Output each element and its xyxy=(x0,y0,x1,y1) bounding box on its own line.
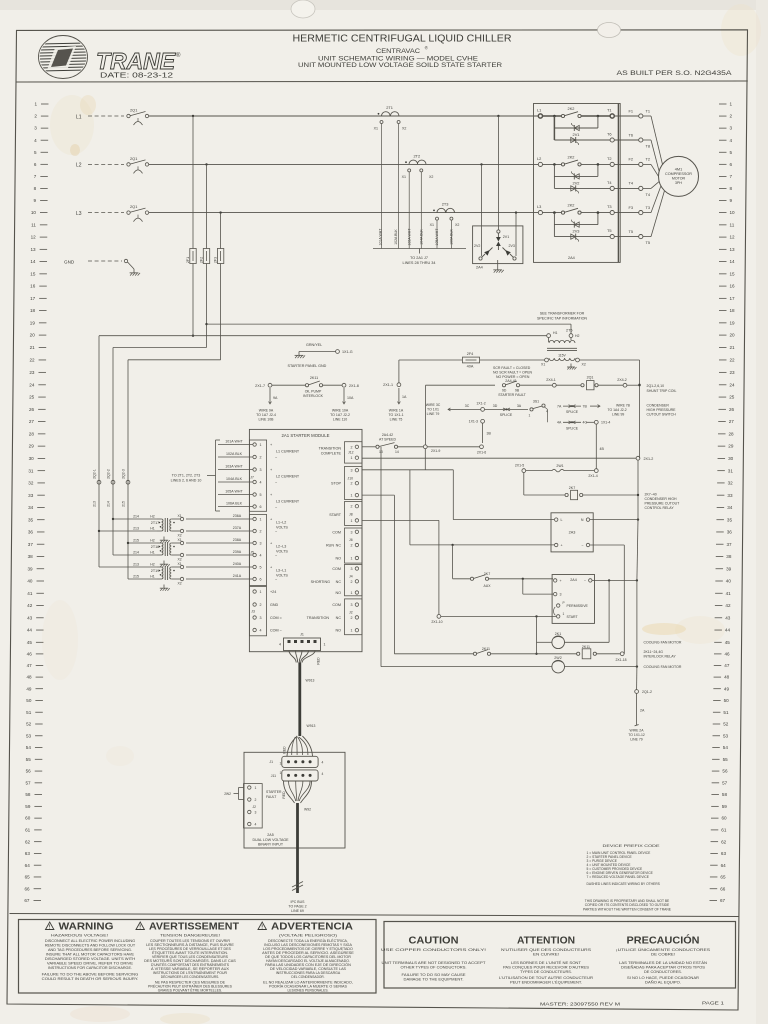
svg-text:4: 4 xyxy=(260,629,262,633)
wire to 2Q1-2 xyxy=(636,667,638,690)
svg-text:SEE TRANSFORMER FOR: SEE TRANSFORMER FOR xyxy=(540,312,585,316)
svg-text:47: 47 xyxy=(27,663,33,668)
svg-text:54: 54 xyxy=(723,745,729,750)
svg-text:2: 2 xyxy=(351,616,353,620)
cable W913 xyxy=(298,663,301,737)
wire 3B drop xyxy=(482,423,484,443)
svg-text:TYPES DE CONDUCTEURS.: TYPES DE CONDUCTEURS. xyxy=(520,970,572,974)
svg-text:DE CONDUCTORES.: DE CONDUCTORES. xyxy=(644,970,682,974)
svg-text:REMOTE DISCONNECTS AND FOLL: REMOTE DISCONNECTS AND FOLLOW LOCK OUT xyxy=(45,943,136,947)
svg-text:HAZARDOUS VOLTAGE!: HAZARDOUS VOLTAGE! xyxy=(51,932,108,937)
fuse 2F3 xyxy=(217,249,223,264)
svg-text:VOLTS: VOLTS xyxy=(276,549,288,553)
svg-text:UNIT MOUNTED LOW VOLTAGE S: UNIT MOUNTED LOW VOLTAGE SOILD STATE STA… xyxy=(298,62,502,69)
svg-text:2K2: 2K2 xyxy=(568,154,575,159)
fuse 2F4 line xyxy=(398,360,400,383)
svg-text:3D: 3D xyxy=(493,404,498,408)
wire at-speed drop to 2W2 row xyxy=(380,447,382,667)
svg-text:22: 22 xyxy=(29,358,35,363)
svg-text:TO 1A4 J2-2: TO 1A4 J2-2 xyxy=(608,408,627,412)
svg-text:EN CUIVRE!: EN CUIVRE! xyxy=(533,953,559,957)
svg-text:4: 4 xyxy=(322,760,324,764)
svg-text:F1: F1 xyxy=(628,108,633,113)
svg-text:3: 3 xyxy=(260,468,262,472)
svg-text:1: 1 xyxy=(260,590,262,594)
svg-text:L2−L3: L2−L3 xyxy=(276,545,286,549)
svg-text:GRAVES POUVANT ÊTRE MORTELL: GRAVES POUVANT ÊTRE MORTELLES. xyxy=(158,987,222,992)
svg-text:2: 2 xyxy=(351,445,353,449)
svg-text:26: 26 xyxy=(29,407,35,412)
svg-text:SCR FAULT = CLOSED: SCR FAULT = CLOSED xyxy=(493,366,531,370)
svg-text:H2: H2 xyxy=(575,334,580,338)
wire 2F3 to stair xyxy=(220,264,222,360)
svg-text:HIGH PRESSURE: HIGH PRESSURE xyxy=(647,408,677,412)
svg-text:4: 4 xyxy=(255,823,257,827)
shunt trip coil 2Q1 xyxy=(556,384,580,386)
wire J8-1 to 2X1-10 xyxy=(362,519,439,521)
svg-text:DISEÑADAS PARA ACEPTAR OTRO: DISEÑADAS PARA ACEPTAR OTROS TIPOS xyxy=(621,965,706,970)
svg-text:2F4: 2F4 xyxy=(467,352,474,356)
svg-text:MASTER: 23097550 REV M: MASTER: 23097550 REV M xyxy=(540,1002,621,1007)
svg-text:17: 17 xyxy=(730,296,736,301)
svg-text:38: 38 xyxy=(28,554,34,559)
svg-text:J10: J10 xyxy=(348,477,354,481)
svg-text:50: 50 xyxy=(724,698,730,703)
svg-text:214: 214 xyxy=(133,514,139,518)
svg-text:33: 33 xyxy=(727,493,733,498)
svg-text:VOLTS: VOLTS xyxy=(276,573,288,577)
svg-text:NO: NO xyxy=(335,629,341,633)
svg-text:HERMETIC CENTRIFUGAL LIQUID: HERMETIC CENTRIFUGAL LIQUID CHILLER xyxy=(293,34,512,45)
svg-text:2Q1: 2Q1 xyxy=(587,375,594,379)
svg-text:N'UTILISER QUE DES CONDUCTE: N'UTILISER QUE DES CONDUCTEURS xyxy=(501,948,592,952)
svg-text:29: 29 xyxy=(29,444,35,449)
svg-text:15: 15 xyxy=(730,272,736,277)
svg-text:6: 6 xyxy=(260,505,262,509)
svg-text:20: 20 xyxy=(730,333,736,338)
svg-text:44: 44 xyxy=(27,628,33,633)
svg-text:1: 1 xyxy=(260,443,262,447)
svg-text:67: 67 xyxy=(720,898,726,903)
svg-text:13: 13 xyxy=(730,247,736,252)
svg-text:INSURE THAT ALL MOTOR CAPA: INSURE THAT ALL MOTOR CAPACITORS HAVE xyxy=(46,952,135,956)
svg-text:35: 35 xyxy=(28,517,34,522)
svg-text:34: 34 xyxy=(727,505,733,510)
svg-text:2T17: 2T17 xyxy=(151,521,159,525)
svg-text:SPLICE: SPLICE xyxy=(566,410,579,414)
svg-text:236A: 236A xyxy=(233,514,242,518)
svg-text:19: 19 xyxy=(30,321,36,326)
punch hole right xyxy=(598,23,621,38)
svg-text:DEL CONDENSADOR.: DEL CONDENSADOR. xyxy=(291,975,324,979)
svg-text:36: 36 xyxy=(727,530,733,535)
svg-text:215: 215 xyxy=(133,538,139,542)
svg-text:104A BLK: 104A BLK xyxy=(226,477,243,481)
svg-text:AT SPEED: AT SPEED xyxy=(379,437,396,441)
cable W92 xyxy=(296,803,299,893)
svg-text:10A: 10A xyxy=(347,396,354,400)
svg-text:2X1-4: 2X1-4 xyxy=(588,474,597,478)
svg-text:2T1: 2T1 xyxy=(386,105,393,110)
svg-text:25: 25 xyxy=(729,395,735,400)
svg-text:!: ! xyxy=(139,924,141,930)
svg-text:UNIT TERMINALS ARE NOT DES: UNIT TERMINALS ARE NOT DESIGNED TO ACCEP… xyxy=(382,961,486,965)
svg-text:L3: L3 xyxy=(76,211,82,217)
svg-text:31: 31 xyxy=(728,468,734,473)
svg-text:INTERLOCK RELAY: INTERLOCK RELAY xyxy=(644,655,677,659)
svg-text:H2: H2 xyxy=(150,562,155,566)
svg-text:2Q1: 2Q1 xyxy=(130,108,137,113)
svg-text:T1: T1 xyxy=(607,108,612,113)
svg-text:VOLTS: VOLTS xyxy=(276,525,288,529)
svg-text:1: 1 xyxy=(280,761,282,765)
svg-text:61: 61 xyxy=(721,828,727,833)
wire starter fault row xyxy=(426,384,496,386)
svg-text:32: 32 xyxy=(28,481,34,486)
svg-text:2: 2 xyxy=(260,530,262,534)
svg-text:62: 62 xyxy=(721,839,727,844)
svg-text:53: 53 xyxy=(26,733,32,738)
svg-text:25: 25 xyxy=(29,395,35,400)
svg-text:T3: T3 xyxy=(607,204,612,209)
svg-text:60: 60 xyxy=(25,816,31,821)
svg-text:J5: J5 xyxy=(250,550,254,554)
svg-text:2K2: 2K2 xyxy=(568,203,575,208)
wire L2 to 2A4 left xyxy=(480,163,482,165)
svg-text:FAILURE TO DO SO MAY CAUS: FAILURE TO DO SO MAY CAUSE xyxy=(402,973,467,977)
svg-text:L2: L2 xyxy=(537,156,541,161)
svg-text:NO: NO xyxy=(335,591,341,595)
svg-text:54: 54 xyxy=(26,745,32,750)
svg-text:45: 45 xyxy=(725,640,731,645)
svg-text:27: 27 xyxy=(729,419,735,424)
wire stair L2 left xyxy=(113,347,207,349)
svg-text:3: 3 xyxy=(255,811,257,815)
svg-text:2T2: 2T2 xyxy=(414,153,421,158)
svg-text:2Q1: 2Q1 xyxy=(130,204,137,209)
svg-text:1: 1 xyxy=(324,642,326,646)
terminal 2X1-8 xyxy=(342,383,346,387)
IPC bus break xyxy=(292,885,303,891)
svg-text:2Q2-3: 2Q2-3 xyxy=(121,469,125,479)
wire left riser 213 xyxy=(98,336,100,567)
svg-text:COPIED OR ITS CONTENTS DIS: COPIED OR ITS CONTENTS DISCLOSED TO OUTS… xyxy=(585,903,670,907)
svg-text:TO PAGE 2: TO PAGE 2 xyxy=(288,905,306,909)
contact 2A4-42 AT SPEED xyxy=(362,446,376,448)
svg-text:X1: X1 xyxy=(430,223,434,227)
svg-text:2: 2 xyxy=(351,544,353,548)
svg-text:INTERLOCK: INTERLOCK xyxy=(303,394,324,398)
svg-text:105A WHT: 105A WHT xyxy=(225,490,243,494)
punch hole left xyxy=(291,0,315,18)
svg-text:NO: NO xyxy=(335,557,341,561)
right distribution bus xyxy=(639,381,641,458)
svg-text:F3: F3 xyxy=(628,205,633,210)
svg-text:215: 215 xyxy=(133,574,139,578)
svg-text:J4: J4 xyxy=(349,574,353,578)
contact 2K2 phase L2 xyxy=(543,163,562,165)
svg-text:PARTIES WITHOUT THE WRITTEN: PARTIES WITHOUT THE WRITTEN CONSENT OF T… xyxy=(583,908,672,912)
relay box 2A3 xyxy=(551,513,593,552)
svg-text:10: 10 xyxy=(31,210,37,215)
svg-text:5: 5 xyxy=(260,493,262,497)
svg-text:3S1: 3S1 xyxy=(533,400,539,404)
svg-text:L2: L2 xyxy=(76,163,82,169)
svg-text:41: 41 xyxy=(726,591,732,596)
svg-text:1: 1 xyxy=(529,413,531,417)
svg-text:59: 59 xyxy=(722,804,728,809)
terminal 2X1-2 xyxy=(636,456,640,460)
wire 2A to IPC xyxy=(636,693,638,725)
svg-text:J12: J12 xyxy=(348,451,354,455)
ground symbol at GND xyxy=(128,262,135,269)
svg-text:5: 5 xyxy=(34,150,37,155)
surge suppressor box 2A4 xyxy=(473,226,523,264)
svg-text:J7: J7 xyxy=(250,475,254,479)
svg-text:LINE 75: LINE 75 xyxy=(390,418,403,422)
svg-text:9B: 9B xyxy=(515,388,520,392)
svg-text:COOLING FAN MOTOR: COOLING FAN MOTOR xyxy=(644,641,682,645)
svg-text:TO 1X1-12: TO 1X1-12 xyxy=(628,733,645,737)
svg-text:L1−L2: L1−L2 xyxy=(276,521,286,525)
compressor motor 4M1 xyxy=(659,156,699,196)
svg-text:LINES 2, 6 AND 10: LINES 2, 6 AND 10 xyxy=(171,478,202,482)
svg-text:241A: 241A xyxy=(233,574,242,578)
svg-text:TENSION DANGEREUSE!: TENSION DANGEREUSE! xyxy=(160,932,220,937)
svg-text:T3: T3 xyxy=(646,205,651,210)
svg-text:42: 42 xyxy=(725,603,731,608)
svg-text:37: 37 xyxy=(727,542,733,547)
svg-text:L1: L1 xyxy=(537,108,541,113)
svg-text:101A WHT: 101A WHT xyxy=(378,228,382,246)
svg-text:2Q1: 2Q1 xyxy=(130,156,137,161)
svg-text:4: 4 xyxy=(260,481,262,485)
svg-text:41: 41 xyxy=(27,591,33,596)
svg-text:9A: 9A xyxy=(273,396,278,400)
svg-text:TO 2T1, 2T2, 2T3: TO 2T1, 2T2, 2T3 xyxy=(172,474,201,478)
svg-text:2F3: 2F3 xyxy=(213,257,217,263)
svg-text:T2: T2 xyxy=(607,156,612,161)
svg-text:2K11−24,4G: 2K11−24,4G xyxy=(644,650,664,654)
svg-text:X1: X1 xyxy=(402,175,406,179)
svg-text:115V: 115V xyxy=(558,354,566,358)
svg-text:WIRE 1A: WIRE 1A xyxy=(389,409,404,413)
svg-text:2V2: 2V2 xyxy=(474,244,480,248)
svg-text:DAÑO AL EQUIPO.: DAÑO AL EQUIPO. xyxy=(645,980,681,985)
svg-text:CONDENSER: CONDENSER xyxy=(647,403,670,407)
svg-text:57: 57 xyxy=(722,780,728,785)
svg-text:4: 4 xyxy=(279,642,281,646)
connector J12 block xyxy=(345,442,363,463)
svg-text:15: 15 xyxy=(30,272,36,277)
svg-text:AS BUILT PER S.O. N2G435A: AS BUILT PER S.O. N2G435A xyxy=(617,70,733,77)
svg-text:14: 14 xyxy=(30,259,36,264)
svg-text:CONDENSER HIGH: CONDENSER HIGH xyxy=(645,497,678,501)
2K7 coil row xyxy=(523,449,525,468)
svg-text:27: 27 xyxy=(29,419,35,424)
wire L1 bus xyxy=(149,115,539,117)
svg-text:X1: X1 xyxy=(178,538,182,542)
svg-text:3C: 3C xyxy=(465,404,470,408)
svg-text:11: 11 xyxy=(31,222,36,227)
wire L2 dashed supply xyxy=(88,163,124,165)
svg-text:2V3: 2V3 xyxy=(573,229,580,234)
svg-text:2K2: 2K2 xyxy=(568,106,575,111)
svg-text:2T3: 2T3 xyxy=(442,202,449,207)
svg-text:2W1: 2W1 xyxy=(556,464,563,468)
svg-text:2A4-42: 2A4-42 xyxy=(382,433,393,437)
contact 2K11 oil pump xyxy=(272,384,305,386)
svg-text:COM: COM xyxy=(332,603,341,607)
svg-text:57: 57 xyxy=(25,780,31,785)
svg-text:WIRE 2A: WIRE 2A xyxy=(630,729,645,733)
svg-text:46: 46 xyxy=(27,652,33,657)
terminal 2X1-10 xyxy=(437,615,441,619)
module 2A1 box xyxy=(249,429,362,651)
interface box 2A4 permissive xyxy=(552,575,594,624)
svg-text:T5: T5 xyxy=(646,240,651,245)
svg-text:48: 48 xyxy=(724,675,730,680)
svg-text:4: 4 xyxy=(260,554,262,558)
svg-text:215: 215 xyxy=(121,501,125,507)
svg-text:63: 63 xyxy=(721,851,727,856)
svg-text:2K11: 2K11 xyxy=(310,376,318,380)
svg-text:SI NO LO HACE, PUEDE OCAS: SI NO LO HACE, PUEDE OCASIONAR xyxy=(627,976,700,980)
svg-text:OIL PUMP: OIL PUMP xyxy=(305,390,322,394)
svg-text:1: 1 xyxy=(351,456,353,460)
svg-text:PAS CONÇUES POUR RECEVOIR: PAS CONÇUES POUR RECEVOIR D'AUTRES xyxy=(503,966,590,970)
svg-text:H1: H1 xyxy=(150,526,155,530)
svg-text:47: 47 xyxy=(724,663,730,668)
svg-text:X2: X2 xyxy=(178,557,182,561)
svg-text:48: 48 xyxy=(26,675,32,680)
contact 2K2 phase L3 xyxy=(543,212,562,214)
wire 2A3 minus to 2X1-18 riser xyxy=(590,544,625,546)
svg-text:AVERTISSEMENT: AVERTISSEMENT xyxy=(149,921,240,933)
svg-text:NC: NC xyxy=(336,544,342,548)
svg-text:X2: X2 xyxy=(178,581,182,585)
svg-text:COULD RESULT IN DEATH OR: COULD RESULT IN DEATH OR SERIOUS INJURY. xyxy=(42,977,139,981)
svg-text:VARIABLE SPEED DRIVE, REFER: VARIABLE SPEED DRIVE, REFER TO DRIVE xyxy=(47,962,134,966)
svg-text:NO SCR FAULT = OPEN: NO SCR FAULT = OPEN xyxy=(493,371,533,375)
wire start row xyxy=(441,615,557,617)
svg-text:61: 61 xyxy=(25,828,31,833)
terminal 1X1-4 xyxy=(586,421,594,423)
wire L2 feeder drop xyxy=(205,163,207,165)
svg-text:43: 43 xyxy=(27,615,33,620)
svg-text:2K7−40: 2K7−40 xyxy=(645,492,657,496)
wire stair L1 to 2T5 H1 xyxy=(192,335,194,337)
connector J10 block xyxy=(345,467,363,500)
svg-text:N: N xyxy=(581,518,584,522)
right line-number rail xyxy=(709,102,735,904)
svg-text:7: 7 xyxy=(34,174,37,179)
svg-text:1: 1 xyxy=(563,612,565,616)
svg-text:T6: T6 xyxy=(607,132,612,137)
svg-text:9: 9 xyxy=(730,198,733,203)
svg-text:2V1: 2V1 xyxy=(573,132,580,137)
svg-text:1: 1 xyxy=(351,591,353,595)
svg-text:103A WHT: 103A WHT xyxy=(407,228,411,246)
splice row 3C-3D-3A xyxy=(448,408,460,410)
svg-text:7: 7 xyxy=(730,174,733,179)
svg-text:58: 58 xyxy=(25,792,31,797)
row 7A-7B xyxy=(533,405,556,407)
wire 4B drop xyxy=(595,424,597,468)
svg-text:OTHER TYPES OF CONDUCTORS.: OTHER TYPES OF CONDUCTORS. xyxy=(401,966,467,970)
svg-text:53: 53 xyxy=(723,733,729,738)
svg-text:2V3: 2V3 xyxy=(509,244,515,248)
svg-text:2: 2 xyxy=(260,456,262,460)
module 2A5 box xyxy=(244,752,345,848)
svg-text:55: 55 xyxy=(26,757,32,762)
wire 2A3 N to right bus xyxy=(590,519,638,521)
svg-text:GRN/YEL: GRN/YEL xyxy=(306,343,322,347)
svg-text:T5: T5 xyxy=(607,228,612,233)
svg-text:L2 CURRENT: L2 CURRENT xyxy=(276,475,300,479)
terminal 2X1-9 xyxy=(423,445,427,449)
svg-text:SPECIFIC TAP INFORMATION: SPECIFIC TAP INFORMATION xyxy=(537,316,587,320)
svg-text:40A: 40A xyxy=(467,365,474,369)
J7 input wires xyxy=(218,444,253,446)
svg-text:SPLICE: SPLICE xyxy=(566,426,579,430)
svg-text:2T5: 2T5 xyxy=(566,329,573,333)
svg-text:213: 213 xyxy=(92,501,96,507)
svg-text:1X1-3: 1X1-3 xyxy=(469,420,478,424)
svg-text:2Q2-2: 2Q2-2 xyxy=(106,469,110,479)
schematic/caution separator rule xyxy=(10,914,740,917)
svg-text:56: 56 xyxy=(722,769,728,774)
svg-text:DASHED LINES INDICATE WIRIN: DASHED LINES INDICATE WIRING BY OTHERS xyxy=(587,882,661,886)
connector J3 block xyxy=(249,587,266,636)
svg-text:T5: T5 xyxy=(628,229,633,234)
wire left riser 214 xyxy=(112,348,114,556)
svg-text:2X1-2: 2X1-2 xyxy=(644,457,654,461)
svg-text:55: 55 xyxy=(723,757,729,762)
svg-text:2X1-5: 2X1-5 xyxy=(515,463,524,467)
svg-text:36: 36 xyxy=(28,530,34,535)
svg-text:W913: W913 xyxy=(306,679,315,683)
svg-text:2K7: 2K7 xyxy=(569,486,575,490)
svg-text:45: 45 xyxy=(27,640,33,645)
svg-text:1: 1 xyxy=(351,519,353,523)
svg-text:6: 6 xyxy=(260,578,262,582)
svg-text:3B: 3B xyxy=(487,432,492,436)
svg-text:®: ® xyxy=(176,52,181,59)
svg-text:3: 3 xyxy=(351,567,353,571)
svg-text:31: 31 xyxy=(28,468,34,473)
svg-text:1: 1 xyxy=(255,786,257,790)
svg-text:1A: 1A xyxy=(402,395,407,399)
svg-text:46: 46 xyxy=(725,652,731,657)
contact 2K7 aux xyxy=(451,544,453,546)
svg-text:32: 32 xyxy=(728,481,734,486)
svg-text:3: 3 xyxy=(351,603,353,607)
wire 2X1-9 to 2X1-6 xyxy=(427,446,479,448)
svg-text:START: START xyxy=(567,615,579,619)
svg-text:FAILURE TO DO THE ABOVE B: FAILURE TO DO THE ABOVE BEFORE SERVICING xyxy=(42,972,139,976)
terminal 2Q1-2 xyxy=(635,690,639,694)
svg-text:¡UTILICE ÚNICAMENTE CONDUCTO: ¡UTILICE ÚNICAMENTE CONDUCTORES xyxy=(616,947,711,952)
svg-text:!: ! xyxy=(49,924,51,930)
svg-text:65: 65 xyxy=(720,875,726,880)
svg-text:2: 2 xyxy=(351,580,353,584)
contact 2K11 row xyxy=(394,653,473,655)
svg-text:X2: X2 xyxy=(402,127,406,131)
svg-text:AND TAG PROCEDURES BEFORE: AND TAG PROCEDURES BEFORE SERVICING. xyxy=(48,948,132,952)
cable fan into 2A5 xyxy=(287,736,313,756)
svg-text:2A: 2A xyxy=(640,709,645,713)
